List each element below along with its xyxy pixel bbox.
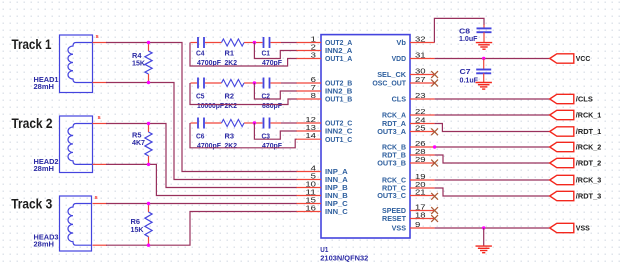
svg-text:/RDT_2: /RDT_2	[576, 159, 602, 168]
transformer/head HEAD3 (tape head coil)	[34, 196, 92, 251]
svg-text:3: 3	[311, 51, 316, 60]
no-connect X pin 25	[431, 128, 438, 135]
pin stub HEAD3 bottom	[93, 244, 108, 246]
pin 16 INN_C	[297, 204, 349, 217]
wire HEAD3+ to INP_C (pin 15)	[106, 203, 297, 205]
svg-text:OUT1_A: OUT1_A	[325, 54, 353, 63]
pin 3 OUT1_A	[297, 51, 353, 64]
ground below C7	[476, 82, 492, 84]
no-connect X pin 18	[431, 215, 438, 222]
junction R3/C3 node	[253, 121, 256, 124]
svg-text:470pF: 470pF	[262, 141, 282, 150]
pin 5 INN_A	[297, 172, 349, 185]
svg-text:/CLS: /CLS	[576, 95, 593, 104]
svg-text:15K: 15K	[132, 59, 146, 68]
wire R2 to junction	[244, 82, 254, 84]
svg-text:R3: R3	[225, 132, 235, 141]
svg-text:Vb: Vb	[396, 38, 406, 47]
wire junction to INN2 pin (y=91)	[254, 83, 297, 99]
svg-text:OUT3_B: OUT3_B	[377, 159, 406, 168]
svg-text:VSS: VSS	[576, 224, 590, 233]
svg-text:2103N/QFN32: 2103N/QFN32	[320, 254, 368, 263]
svg-text:C4: C4	[196, 49, 205, 58]
pin 28 RDT_B	[382, 147, 435, 160]
svg-text:VSS: VSS	[392, 224, 406, 233]
svg-text:23: 23	[415, 91, 426, 100]
pin stub HEAD2 bottom	[93, 163, 108, 165]
wire C5 to R2	[205, 82, 222, 84]
resistor R6 15K	[131, 204, 153, 246]
no-connect X pin 30	[431, 71, 438, 78]
svg-text:R2: R2	[225, 92, 235, 101]
svg-text:21: 21	[415, 188, 426, 197]
resistor R4 15K	[132, 43, 152, 83]
wire HEAD1+ to INP_A (pin 4)	[106, 43, 297, 172]
svg-text:s: s	[98, 115, 101, 121]
wire RDT_C (pin20) to /RDT_3 port	[435, 188, 550, 196]
svg-text:s: s	[96, 34, 99, 40]
wire RDT_B (pin28) to /RDT_2 port	[435, 155, 550, 163]
wire C2 to IC	[271, 82, 282, 84]
svg-text:28mH: 28mH	[34, 240, 55, 249]
wire junction to INN2 pin (y=131)	[254, 123, 297, 139]
transformer/head HEAD1 (tape head coil)	[34, 35, 93, 93]
svg-text:/RDT_3: /RDT_3	[576, 192, 602, 201]
svg-text:14: 14	[305, 131, 316, 140]
svg-text:Track 3: Track 3	[11, 196, 52, 212]
pin 32 Vb	[396, 35, 434, 48]
svg-text:32: 32	[415, 35, 426, 44]
svg-text:R1: R1	[225, 49, 235, 58]
svg-text:CLS: CLS	[392, 95, 406, 104]
wire junction to C3	[254, 122, 262, 124]
pin stub C4 left	[191, 42, 198, 44]
resistor R2 2K2	[222, 79, 245, 109]
svg-text:OSC_OUT: OSC_OUT	[372, 79, 406, 88]
port /RCK_3	[550, 175, 602, 184]
pin stub HEAD1 top	[93, 42, 108, 44]
junction R6 bottom	[147, 244, 150, 247]
IC U1 2103N/QFN32 body	[320, 35, 410, 263]
svg-text:/RCK_1: /RCK_1	[576, 111, 602, 120]
pin 2 INN2_A	[297, 43, 353, 56]
svg-text:VCC: VCC	[576, 54, 591, 63]
wire HEAD1- to INN_A (pin 5)	[106, 83, 297, 180]
port VSS	[550, 223, 590, 232]
wire junction to C2	[254, 82, 262, 84]
resistor R1 2K2	[222, 39, 245, 67]
resistor R5 4K7	[132, 124, 152, 165]
pin stub C6 left	[191, 122, 198, 124]
wire VDD (pin31) to VCC port	[435, 58, 550, 60]
wire C4 to R1	[205, 42, 222, 44]
pin 21 OUT3_C	[377, 188, 434, 201]
capacitor C2 680pF	[262, 78, 283, 110]
port /RDT_3	[550, 191, 602, 200]
port /RCK_1	[550, 110, 602, 119]
junction R4 bottom	[147, 81, 150, 84]
junction R1/C1 node	[253, 41, 256, 44]
wire OUT1 return to C5	[190, 83, 297, 105]
pin stub HEAD1 bottom	[93, 82, 108, 84]
svg-text:27: 27	[415, 75, 426, 84]
transformer/head HEAD2 (tape head coil)	[34, 116, 93, 173]
svg-text:C5: C5	[196, 92, 205, 101]
pin 23 CLS	[392, 91, 435, 104]
capacitor C1 470pF	[262, 37, 283, 67]
wire C6 to R3	[205, 122, 222, 124]
pin 18 RESET	[382, 211, 435, 224]
ground below C8	[476, 42, 492, 44]
no-connect X pin 17	[431, 207, 438, 214]
port VCC	[550, 54, 591, 63]
svg-text:28mH: 28mH	[34, 164, 55, 173]
wire RDT_A (pin24) to /RDT_1 port	[435, 124, 550, 132]
svg-text:15K: 15K	[131, 225, 145, 234]
pin 8 OUT1_B	[297, 91, 353, 104]
svg-text:2K2: 2K2	[225, 101, 238, 110]
capacitor C6 4700pF	[196, 118, 221, 150]
svg-text:2K2: 2K2	[225, 141, 238, 150]
wire pin32 Vb to C8	[434, 18, 484, 42]
svg-text:OUT3_C: OUT3_C	[377, 191, 406, 200]
svg-text:4700pF: 4700pF	[197, 141, 221, 150]
pin stub C5 left	[191, 82, 198, 84]
svg-text:10000pF: 10000pF	[197, 101, 224, 110]
pin 11 INN_B	[297, 188, 349, 201]
pin stub HEAD3 top	[93, 203, 108, 205]
pin 13 INN2_C	[297, 123, 353, 136]
wire OUT1 return to C4	[190, 43, 297, 67]
svg-text:/RCK_3: /RCK_3	[576, 176, 602, 185]
svg-text:Track 1: Track 1	[12, 36, 52, 52]
junction R5 bottom	[147, 163, 150, 166]
pin 9 VSS	[392, 220, 435, 233]
capacitor C8 1.0uF	[459, 25, 492, 43]
wire CLS (pin23) to /CLS port	[435, 98, 550, 100]
junction VSS/ground	[482, 226, 485, 229]
pin 1 OUT2_A	[297, 35, 353, 48]
no-connect X pin 29	[431, 160, 438, 167]
wire C1 to IC	[271, 42, 282, 44]
no-connect X pin 27	[431, 80, 438, 87]
pin 14 OUT1_C	[297, 131, 353, 144]
pin 24 RDT_A	[382, 116, 435, 129]
capacitor C3 470pF	[262, 118, 283, 150]
pin 22 RCK_A	[382, 107, 435, 120]
capacitor C5 10000pF	[196, 78, 224, 110]
svg-text:Track 2: Track 2	[12, 115, 53, 131]
wire VSS (pin9) to VSS port	[435, 227, 550, 229]
wire HEAD2+ to INP_B (pin 10)	[106, 124, 297, 188]
ground below VSS wire	[476, 245, 492, 247]
wire OUT1 return to C6	[190, 123, 297, 148]
capacitor C4 4700pF	[196, 37, 221, 67]
svg-text:25: 25	[415, 124, 426, 133]
svg-text:29: 29	[415, 155, 426, 164]
pin 6 OUT2_B	[297, 75, 353, 88]
svg-text:VDD: VDD	[392, 54, 407, 63]
svg-text:OUT1_C: OUT1_C	[325, 135, 353, 144]
pin 26 RCK_B	[382, 139, 435, 152]
wire HEAD3- to INN_C (pin 16)	[106, 212, 297, 246]
wire RCK_C (pin19) to /RCK_3 port	[435, 179, 550, 181]
port /RDT_1	[550, 127, 602, 136]
wire HEAD2- to INN_B (pin 11)	[106, 164, 297, 195]
pin 7 INN2_B	[297, 83, 353, 96]
pin 27 OSC_OUT	[372, 75, 434, 88]
wire RCK_A (pin22) to /RCK_1 port	[435, 114, 550, 116]
junction R6 top	[147, 202, 150, 205]
pin 31 VDD	[392, 51, 435, 64]
svg-text:1.0uF: 1.0uF	[459, 34, 478, 43]
svg-text:18: 18	[415, 211, 426, 220]
wire junction to C1	[254, 42, 262, 44]
svg-text:16: 16	[305, 204, 316, 213]
pin 19 RCK_C	[382, 172, 435, 185]
svg-text:OUT3_A: OUT3_A	[377, 127, 406, 136]
junction VDD/C7	[482, 57, 485, 60]
svg-text:s: s	[95, 195, 98, 201]
junction R2/C2 node	[253, 81, 256, 84]
svg-text:OUT1_B: OUT1_B	[325, 95, 353, 104]
port /RCK_2	[550, 142, 602, 151]
svg-text:C6: C6	[196, 132, 205, 141]
pin 29 OUT3_B	[377, 155, 434, 168]
svg-text:680pF: 680pF	[262, 101, 282, 110]
wire R3 to junction	[244, 122, 254, 124]
pin 4 INP_A	[297, 164, 349, 177]
svg-text:31: 31	[415, 51, 426, 60]
svg-text:RESET: RESET	[382, 214, 406, 223]
svg-text:C1: C1	[262, 49, 271, 58]
port /CLS	[550, 94, 593, 103]
pin 10 INP_B	[297, 180, 349, 193]
svg-text:4K7: 4K7	[132, 138, 145, 147]
junction R5 top	[147, 122, 150, 125]
pin stub HEAD2 top	[93, 123, 108, 125]
pin 12 OUT2_C	[297, 115, 353, 128]
pin 17 SPEED	[382, 203, 435, 216]
pin 30 SEL_CK	[377, 67, 434, 80]
svg-text:28mH: 28mH	[34, 82, 55, 91]
pin 15 INP_C	[297, 196, 349, 209]
ground stem on VSS net	[483, 228, 485, 246]
pin 25 OUT3_A	[377, 124, 434, 137]
capacitor C7 0.1uF	[460, 59, 492, 85]
junction R4 top	[147, 41, 150, 44]
junction on RCK_B wire	[433, 145, 436, 148]
wire RCK_B (pin26) to /RCK_2 port	[435, 146, 550, 148]
svg-text:8: 8	[311, 91, 316, 100]
svg-text:INN_C: INN_C	[325, 207, 348, 216]
svg-text:/RDT_1: /RDT_1	[576, 127, 602, 136]
wire C3 to IC	[271, 122, 282, 124]
resistor R3 2K2	[222, 119, 245, 149]
wire R1 to junction	[244, 42, 254, 44]
pin 20 RDT_C	[382, 180, 435, 193]
no-connect X pin 21	[431, 193, 438, 200]
svg-text:9: 9	[415, 220, 420, 229]
svg-text:/RCK_2: /RCK_2	[576, 143, 602, 152]
port /RDT_2	[550, 158, 602, 167]
wire junction to INN2 pin (y=50.5)	[254, 43, 297, 59]
